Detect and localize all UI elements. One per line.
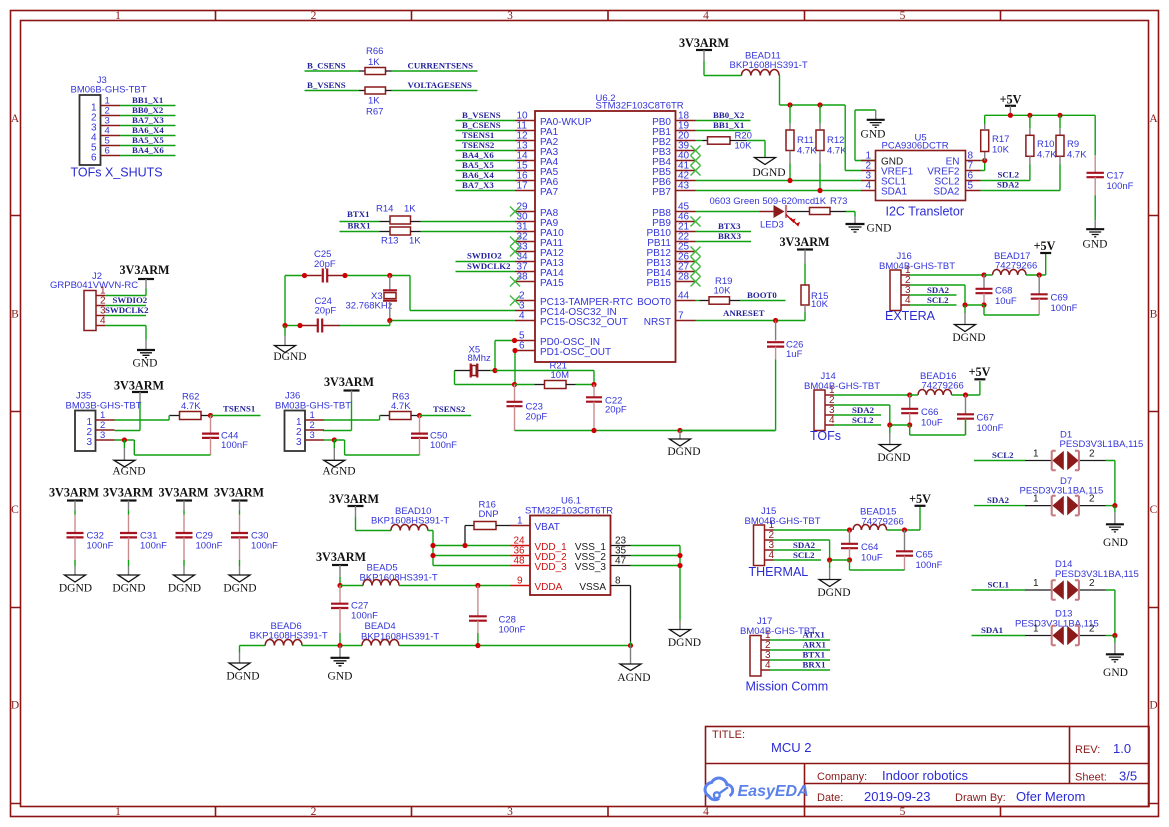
wire C27 to ground row [339, 633, 341, 646]
svg-text:VSS_3: VSS_3 [575, 562, 607, 573]
svg-text:2: 2 [1089, 624, 1095, 635]
svg-text:32.768KHz: 32.768KHz [346, 301, 393, 312]
svg-text:1K: 1K [368, 96, 380, 107]
wire J16 pin3 SDA2 [910, 294, 957, 296]
svg-text:BKP1608HS391-T: BKP1608HS391-T [371, 516, 449, 527]
diode D1 body [1052, 451, 1078, 471]
capacitor C32 to DGND [74, 560, 76, 566]
resistor R14 lead left [380, 221, 391, 223]
svg-text:100nF: 100nF [499, 625, 526, 636]
capacitor C44 plates [202, 434, 219, 438]
svg-text:1: 1 [517, 516, 523, 527]
connector J15 body [754, 525, 765, 566]
resistor R63 body [390, 412, 412, 420]
ground GND LED stem [854, 217, 856, 224]
ground GND C17 [1086, 228, 1104, 230]
ground DGND X5 [670, 439, 691, 446]
svg-text:C66: C66 [921, 407, 938, 418]
crystal X3 body [384, 293, 396, 299]
crystal X5 plates [471, 364, 478, 378]
svg-text:TSENS1: TSENS1 [462, 130, 494, 140]
svg-text:STM32F103C8T6TR: STM32F103C8T6TR [596, 101, 684, 112]
wire VOLTAGESENS [392, 90, 478, 92]
J35 pin stubs [96, 420, 115, 440]
ground DGND C31 [118, 575, 139, 582]
capacitor C25 plates [323, 269, 327, 283]
svg-text:1K: 1K [404, 204, 416, 215]
diode D14 body [1052, 580, 1078, 600]
ground DGND row stem [239, 646, 241, 653]
resistor R63 lead right [411, 415, 420, 417]
svg-text:3/5: 3/5 [1119, 769, 1137, 784]
svg-text:4: 4 [519, 311, 525, 322]
svg-text:SDA1: SDA1 [981, 625, 1003, 635]
diode D14 lead left [1025, 589, 1051, 591]
ground GND D7 stem [1114, 506, 1116, 513]
resistor R11 lead top [789, 105, 791, 123]
J2 pin numbers [100, 286, 106, 327]
junction dot VSSA rail [628, 643, 633, 648]
wire X5 left down [455, 371, 515, 385]
no-connect X pin28 [691, 277, 701, 287]
power 3V3ARM R15 stem [804, 250, 806, 264]
svg-text:BB0_X2: BB0_X2 [132, 105, 164, 115]
svg-text:4: 4 [866, 181, 872, 192]
wire 3V3ARM to BEAD11 [704, 61, 742, 76]
power 3V3ARM J2 bar [138, 278, 154, 280]
svg-text:EXTERA: EXTERA [885, 309, 936, 323]
svg-text:100nF: 100nF [1107, 181, 1134, 192]
junction dot VSS2 [677, 553, 682, 558]
no-connect X pin2 PC13 [510, 296, 520, 306]
svg-text:SCL2: SCL2 [852, 415, 874, 425]
U6.1 VBAT stub [511, 525, 531, 527]
wire PB1 [696, 130, 751, 132]
capacitor C28 plates [469, 616, 487, 620]
capacitor C29 lead top [183, 515, 185, 534]
wire R73 to GND [846, 212, 855, 217]
capacitor C50 lead bottom [419, 438, 421, 455]
svg-text:B_VSENS: B_VSENS [462, 110, 501, 120]
svg-text:Sheet:: Sheet: [1075, 772, 1107, 784]
svg-text:4.7K: 4.7K [1037, 150, 1057, 161]
power 3V3ARM R15 bar [797, 248, 813, 250]
capacitor C29 stem [183, 501, 185, 511]
svg-text:BA6_X4: BA6_X4 [132, 125, 164, 135]
U5 left pin numbers [866, 151, 872, 192]
capacitor C67 lead bottom [965, 419, 967, 435]
svg-text:3V3ARM: 3V3ARM [158, 486, 209, 500]
wire D14 to GND [1106, 590, 1115, 636]
U6.1 body [530, 516, 611, 596]
ground DGND C29 [174, 575, 195, 582]
ground AGND U6.1 stem [630, 646, 632, 665]
svg-text:GND: GND [867, 223, 892, 235]
U6.1 VDD stubs [511, 546, 531, 586]
U6.2 left pin stubs bank3 [515, 301, 535, 351]
svg-text:48: 48 [514, 556, 526, 567]
J15 pin stubs [765, 530, 774, 560]
capacitor C32 lead bottom [74, 537, 76, 560]
svg-text:3V3ARM: 3V3ARM [324, 375, 375, 389]
junction dot VSS3 [677, 563, 682, 568]
capacitor C29 lead bottom [183, 537, 185, 560]
svg-text:+5V: +5V [969, 365, 991, 379]
svg-text:CURRENTSENS: CURRENTSENS [408, 60, 474, 70]
svg-text:6: 6 [105, 146, 110, 157]
U5 left pin stubs [861, 161, 876, 191]
ground GND U5 stem [875, 110, 877, 119]
ferrite bead BEAD16 coil [918, 389, 952, 395]
svg-text:A: A [1149, 113, 1158, 125]
wire J2 pin1 to 3V3ARM [105, 289, 146, 296]
wire C24 row left [285, 325, 300, 327]
resistor R13 lead left [380, 231, 391, 233]
svg-text:DGND: DGND [952, 332, 985, 344]
wire J14 pin4 SCL2 [834, 424, 881, 426]
ground DGND J16 [955, 325, 976, 332]
power 3V3ARM BEAD10 stem [355, 506, 357, 517]
wire J35 ground loop [134, 440, 210, 455]
power 3V3ARM BEAD10 bar [348, 505, 364, 507]
connector J2 body [84, 291, 96, 331]
svg-text:17: 17 [517, 181, 529, 192]
ground AGND J35 [114, 460, 135, 467]
ground GND row [331, 657, 350, 659]
svg-text:EasyEDA: EasyEDA [738, 783, 809, 800]
svg-text:R9: R9 [1067, 139, 1079, 150]
wire 3V3ARM to J35 pin2 [115, 402, 140, 431]
svg-text:R11: R11 [797, 135, 814, 146]
svg-text:BTX1: BTX1 [803, 650, 826, 660]
wire J16 pin4 SCL2 [910, 304, 957, 306]
svg-text:C68: C68 [995, 286, 1012, 297]
resistor R16 lead right [496, 525, 511, 527]
junction dot PD1 pin [512, 348, 517, 353]
J16 pin numbers [905, 265, 911, 306]
junction dot GND row [337, 643, 342, 648]
resistor R66 lead left [359, 70, 365, 72]
svg-text:GND: GND [861, 129, 886, 141]
capacitor C17 lead top [1094, 155, 1096, 172]
svg-text:+5V: +5V [909, 492, 931, 506]
capacitor C31 stem [128, 501, 130, 511]
power 3V3ARM C29 bar [176, 499, 192, 501]
svg-text:100nF: 100nF [196, 541, 223, 552]
junction dot R62 out [208, 413, 213, 418]
wire J36 ground loop [334, 440, 419, 455]
resistor R9 lead top [1059, 115, 1061, 128]
wire J14 pin1 to bead [834, 394, 910, 396]
capacitor C27 lead top [339, 586, 341, 604]
no-connect X pin33 [510, 247, 520, 257]
resistor R19 lead left [700, 300, 710, 302]
svg-text:10K: 10K [811, 299, 829, 310]
junction dot C64 bottom [847, 557, 852, 562]
junction dot C25 right [342, 273, 347, 278]
capacitor C32 lead top [74, 515, 76, 534]
svg-text:PA15: PA15 [540, 278, 564, 289]
svg-text:C17: C17 [1107, 171, 1124, 182]
connector J3 body [80, 95, 101, 165]
svg-text:SDA1: SDA1 [881, 187, 908, 198]
wire BEAD15 to +5V [887, 507, 920, 530]
wire J15 pin1 to bead [774, 529, 850, 531]
junction dot rail C22 [591, 428, 596, 433]
svg-text:9: 9 [517, 576, 523, 587]
svg-text:SCL2: SCL2 [992, 450, 1014, 460]
power +5V stem [1009, 106, 1011, 116]
svg-text:100nF: 100nF [251, 541, 278, 552]
capacitor C65 lead top [904, 530, 906, 551]
svg-text:DGND: DGND [226, 671, 259, 683]
svg-text:5: 5 [900, 806, 906, 818]
wire J17 pin4 BRX1 [770, 669, 830, 671]
U6.2 right pin stubs [676, 121, 696, 321]
svg-text:38: 38 [517, 272, 529, 283]
svg-text:3V3ARM: 3V3ARM [114, 379, 165, 393]
svg-text:3V3ARM: 3V3ARM [316, 550, 367, 564]
title block outline [706, 727, 1150, 807]
svg-text:6: 6 [91, 153, 97, 164]
junction dot R12 bottom [817, 188, 822, 193]
svg-text:2: 2 [311, 806, 317, 818]
svg-text:TSENS1: TSENS1 [223, 404, 255, 414]
capacitor C44 lead bottom [210, 438, 212, 455]
svg-text:PESD3V3L1BA,115: PESD3V3L1BA,115 [1015, 619, 1099, 630]
ground GND J2 stem [145, 340, 147, 350]
svg-text:4.7K: 4.7K [797, 146, 817, 157]
junction dot VDD_1 [430, 543, 435, 548]
svg-text:2019-09-23: 2019-09-23 [864, 789, 931, 804]
svg-text:1: 1 [1033, 624, 1039, 635]
svg-text:BA7_X3: BA7_X3 [132, 115, 164, 125]
junction dot R21 left [512, 382, 517, 387]
U6.1 VSS stubs [611, 546, 631, 586]
svg-text:Drawn By:: Drawn By: [955, 792, 1006, 804]
resistor R9 body [1056, 135, 1064, 156]
wire J2 pin3 SWDCLK2 [105, 315, 146, 317]
svg-text:3V3ARM: 3V3ARM [329, 492, 380, 506]
wire BEAD11 to rail [780, 76, 846, 106]
resistor R10 lead bottom [1029, 156, 1031, 164]
diode D7 lead left [1025, 505, 1051, 507]
capacitor C17 wire top [1094, 115, 1096, 155]
U6.2 left pin stubs bank1 [515, 121, 535, 191]
svg-text:SWDCLK2: SWDCLK2 [467, 261, 511, 271]
connector J35 body [75, 411, 96, 452]
ferrite bead BEAD6 coil [265, 639, 302, 645]
no-connect X pin46 [691, 217, 701, 227]
resistor R11 lead bottom [789, 151, 791, 164]
capacitor C23 plates [507, 402, 523, 406]
svg-text:GND: GND [328, 671, 353, 683]
resistor R20 lead left [703, 140, 708, 142]
svg-text:DGND: DGND [877, 452, 910, 464]
wire R20 to DGND [747, 141, 766, 158]
diode D13 lead right [1080, 635, 1106, 637]
junction dot C67 top [963, 392, 968, 397]
svg-text:C64: C64 [861, 542, 878, 553]
diode D13 body [1052, 626, 1078, 646]
no-connect X pin29 [510, 207, 520, 217]
resistor R66 body [365, 68, 386, 75]
J3 pin wires [120, 106, 176, 156]
svg-text:10K: 10K [992, 145, 1010, 156]
svg-text:8: 8 [615, 576, 621, 587]
power 3V3ARM BEAD5 bar [332, 564, 348, 566]
power 3V3ARM C32 bar [67, 499, 83, 501]
svg-text:TITLE:: TITLE: [712, 729, 745, 741]
connector J14 body [814, 390, 825, 431]
wire J17 pin2 ARX1 [770, 649, 830, 651]
wire X5 right to PD0 drop [490, 370, 495, 372]
svg-text:3V3ARM: 3V3ARM [49, 486, 100, 500]
wire J14 pin3 SDA2 [834, 414, 881, 416]
wire R21 to C22 [576, 384, 595, 386]
ground DGND C32 [65, 575, 86, 582]
resistor R73 lead right [830, 211, 846, 213]
wire R17 to +5V rail [985, 115, 1095, 124]
junction dot rail DGND [677, 428, 682, 433]
svg-text:SDA2: SDA2 [852, 405, 875, 415]
LED3 anode lead [760, 211, 774, 213]
ground DGND X5 stem [679, 431, 681, 440]
ferrite bead BEAD10 coil [391, 524, 428, 530]
wire ground row left [240, 645, 266, 647]
power 3V3ARM J36 stem [351, 391, 353, 402]
capacitor C24 lead left [300, 325, 317, 327]
capacitor C66 plates [901, 409, 918, 413]
ground DGND J14 [879, 445, 900, 452]
wire PB8 to LED3 [696, 211, 760, 213]
ferrite bead BEAD11 coil [742, 69, 780, 75]
wire BEAD10 to VDD rows [428, 531, 511, 566]
resistor R17 lead top [984, 124, 986, 130]
ground GND row stem [339, 646, 341, 658]
power +5V J16 bar [1040, 252, 1051, 254]
capacitor C30 lead bottom [239, 537, 241, 560]
capacitor C67 plates [957, 414, 974, 418]
svg-text:B_CSENS: B_CSENS [462, 120, 501, 130]
wire R9 to SDA2 [981, 164, 1061, 190]
wire J36 pin3 [324, 439, 334, 441]
no-connect X pin26 [691, 257, 701, 267]
junction dot C24 lead [297, 323, 302, 328]
resistor R16 body [474, 522, 496, 530]
wire BRX1 [340, 231, 380, 233]
diode D7 body [1052, 496, 1078, 516]
capacitor C25 lead left [305, 275, 322, 277]
wire BEAD6 to GND [302, 645, 362, 647]
svg-text:Date:: Date: [817, 792, 843, 804]
wire J15 ground loop [774, 540, 905, 570]
svg-text:SDA2: SDA2 [997, 180, 1020, 190]
junction dot C68 top [981, 272, 986, 277]
svg-text:PD1-OSC_OUT: PD1-OSC_OUT [540, 347, 611, 358]
wire B_CSENS [305, 70, 360, 72]
svg-text:TSENS2: TSENS2 [462, 140, 495, 150]
svg-text:2: 2 [311, 10, 317, 22]
svg-text:B_VSENS: B_VSENS [307, 80, 346, 90]
svg-text:SDA2: SDA2 [987, 495, 1010, 505]
svg-text:10uF: 10uF [861, 553, 883, 564]
svg-text:GND: GND [1083, 239, 1108, 251]
J14 pin numbers [829, 385, 835, 426]
resistor R67 lead right [386, 90, 392, 92]
no-connect X pin25 [691, 247, 701, 257]
capacitor C30 to DGND [239, 560, 241, 566]
resistor R17 body [981, 130, 989, 152]
svg-text:2: 2 [1089, 494, 1095, 505]
svg-text:3: 3 [100, 430, 105, 441]
capacitor C50 lead top [419, 416, 421, 434]
wire R13 to PA10 [421, 231, 516, 233]
svg-text:1K: 1K [815, 196, 827, 207]
svg-text:SDA2: SDA2 [793, 540, 816, 550]
wire J2 pin2 SWDIO2 [105, 305, 146, 307]
svg-text:VDD_3: VDD_3 [535, 562, 568, 573]
svg-text:PB7: PB7 [652, 187, 671, 198]
resistor R20 lead right [730, 140, 747, 142]
svg-text:44: 44 [678, 291, 690, 302]
resistor R62 lead right [201, 415, 211, 417]
resistor R12 body [816, 130, 824, 151]
svg-text:ARX1: ARX1 [803, 640, 826, 650]
junction dot C64 top [847, 527, 852, 532]
svg-text:1.0: 1.0 [1113, 741, 1131, 756]
J2 pin stubs [96, 296, 105, 326]
junction dot C28 bottom [475, 643, 480, 648]
capacitor C27 lead bottom [339, 608, 341, 633]
svg-text:AGND: AGND [112, 466, 145, 478]
ground DGND J16 stem [964, 305, 966, 313]
junction dot R12 top [817, 102, 822, 107]
ground AGND U6.1 [620, 664, 641, 671]
svg-text:DGND: DGND [59, 583, 92, 595]
svg-text:TSENS2: TSENS2 [433, 404, 466, 414]
svg-text:0603 Green 509-620mcd: 0603 Green 509-620mcd [710, 196, 816, 207]
svg-text:NRST: NRST [644, 317, 671, 328]
capacitor C29 plates [176, 533, 193, 537]
no-connect X pin41 [691, 166, 701, 176]
junction dot R11 bottom [787, 178, 792, 183]
svg-text:Indoor robotics: Indoor robotics [882, 768, 968, 783]
diode D13 lead left [1025, 635, 1051, 637]
svg-text:4.7K: 4.7K [391, 401, 411, 412]
no-connect X pin38 [510, 277, 520, 287]
resistor R16 lead left [465, 526, 474, 546]
capacitor C32 plates [67, 533, 84, 537]
svg-text:R10: R10 [1037, 139, 1054, 150]
junction dot C68 bottom [981, 302, 986, 307]
ground GND D13 stem [1114, 636, 1116, 643]
resistor R73 body [810, 208, 831, 215]
resistor R21 lead left [535, 384, 545, 386]
svg-text:C: C [1150, 504, 1158, 516]
svg-text:A: A [11, 113, 20, 125]
power +5V bar [1005, 105, 1016, 107]
junction dot J16 pin2 gnd [962, 302, 967, 307]
svg-text:5: 5 [968, 181, 974, 192]
U6.2 left pin numbers [517, 111, 529, 352]
U5 right pin numbers [968, 151, 974, 192]
capacitor C23 lead top [514, 385, 516, 402]
ground DGND X3 [275, 346, 296, 353]
svg-text:VBAT: VBAT [535, 522, 560, 533]
svg-text:SCL2: SCL2 [998, 170, 1020, 180]
wire VSS rows to vertical [631, 546, 681, 621]
